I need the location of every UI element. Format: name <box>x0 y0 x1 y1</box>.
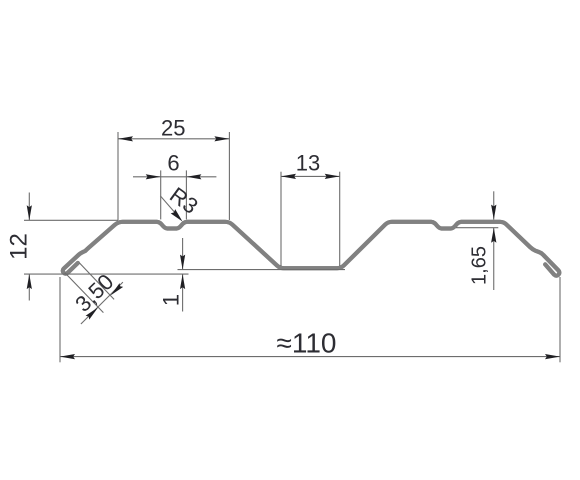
dimension 3,50 (edge hem fold length) <box>65 263 123 324</box>
dimension 12 (profile height) <box>5 193 188 301</box>
svg-text:12: 12 <box>5 233 32 260</box>
dimension 25 (top flat width of left rib) <box>118 116 229 221</box>
sheet-metal siding profile cross-section (double-line outline with hemmed edges, two trapezoidal ribs and capillary grooves) <box>63 222 560 276</box>
svg-text:25: 25 <box>161 116 185 141</box>
dimension 6 (capillary groove width) <box>133 151 216 220</box>
svg-text:1,65: 1,65 <box>468 246 490 285</box>
dimension 1,65 (groove depth) <box>456 191 498 290</box>
dimension 1 (valley lift above bottom plane) <box>159 238 346 312</box>
svg-text:≈110: ≈110 <box>276 328 336 359</box>
svg-text:1: 1 <box>159 294 184 306</box>
svg-text:13: 13 <box>296 151 320 176</box>
radius leader R3 (groove radius callout) <box>160 182 202 221</box>
dimension 13 (valley flat width) <box>281 151 340 266</box>
dimension ~110 (overall cover width) <box>60 277 560 362</box>
svg-text:6: 6 <box>167 151 179 176</box>
